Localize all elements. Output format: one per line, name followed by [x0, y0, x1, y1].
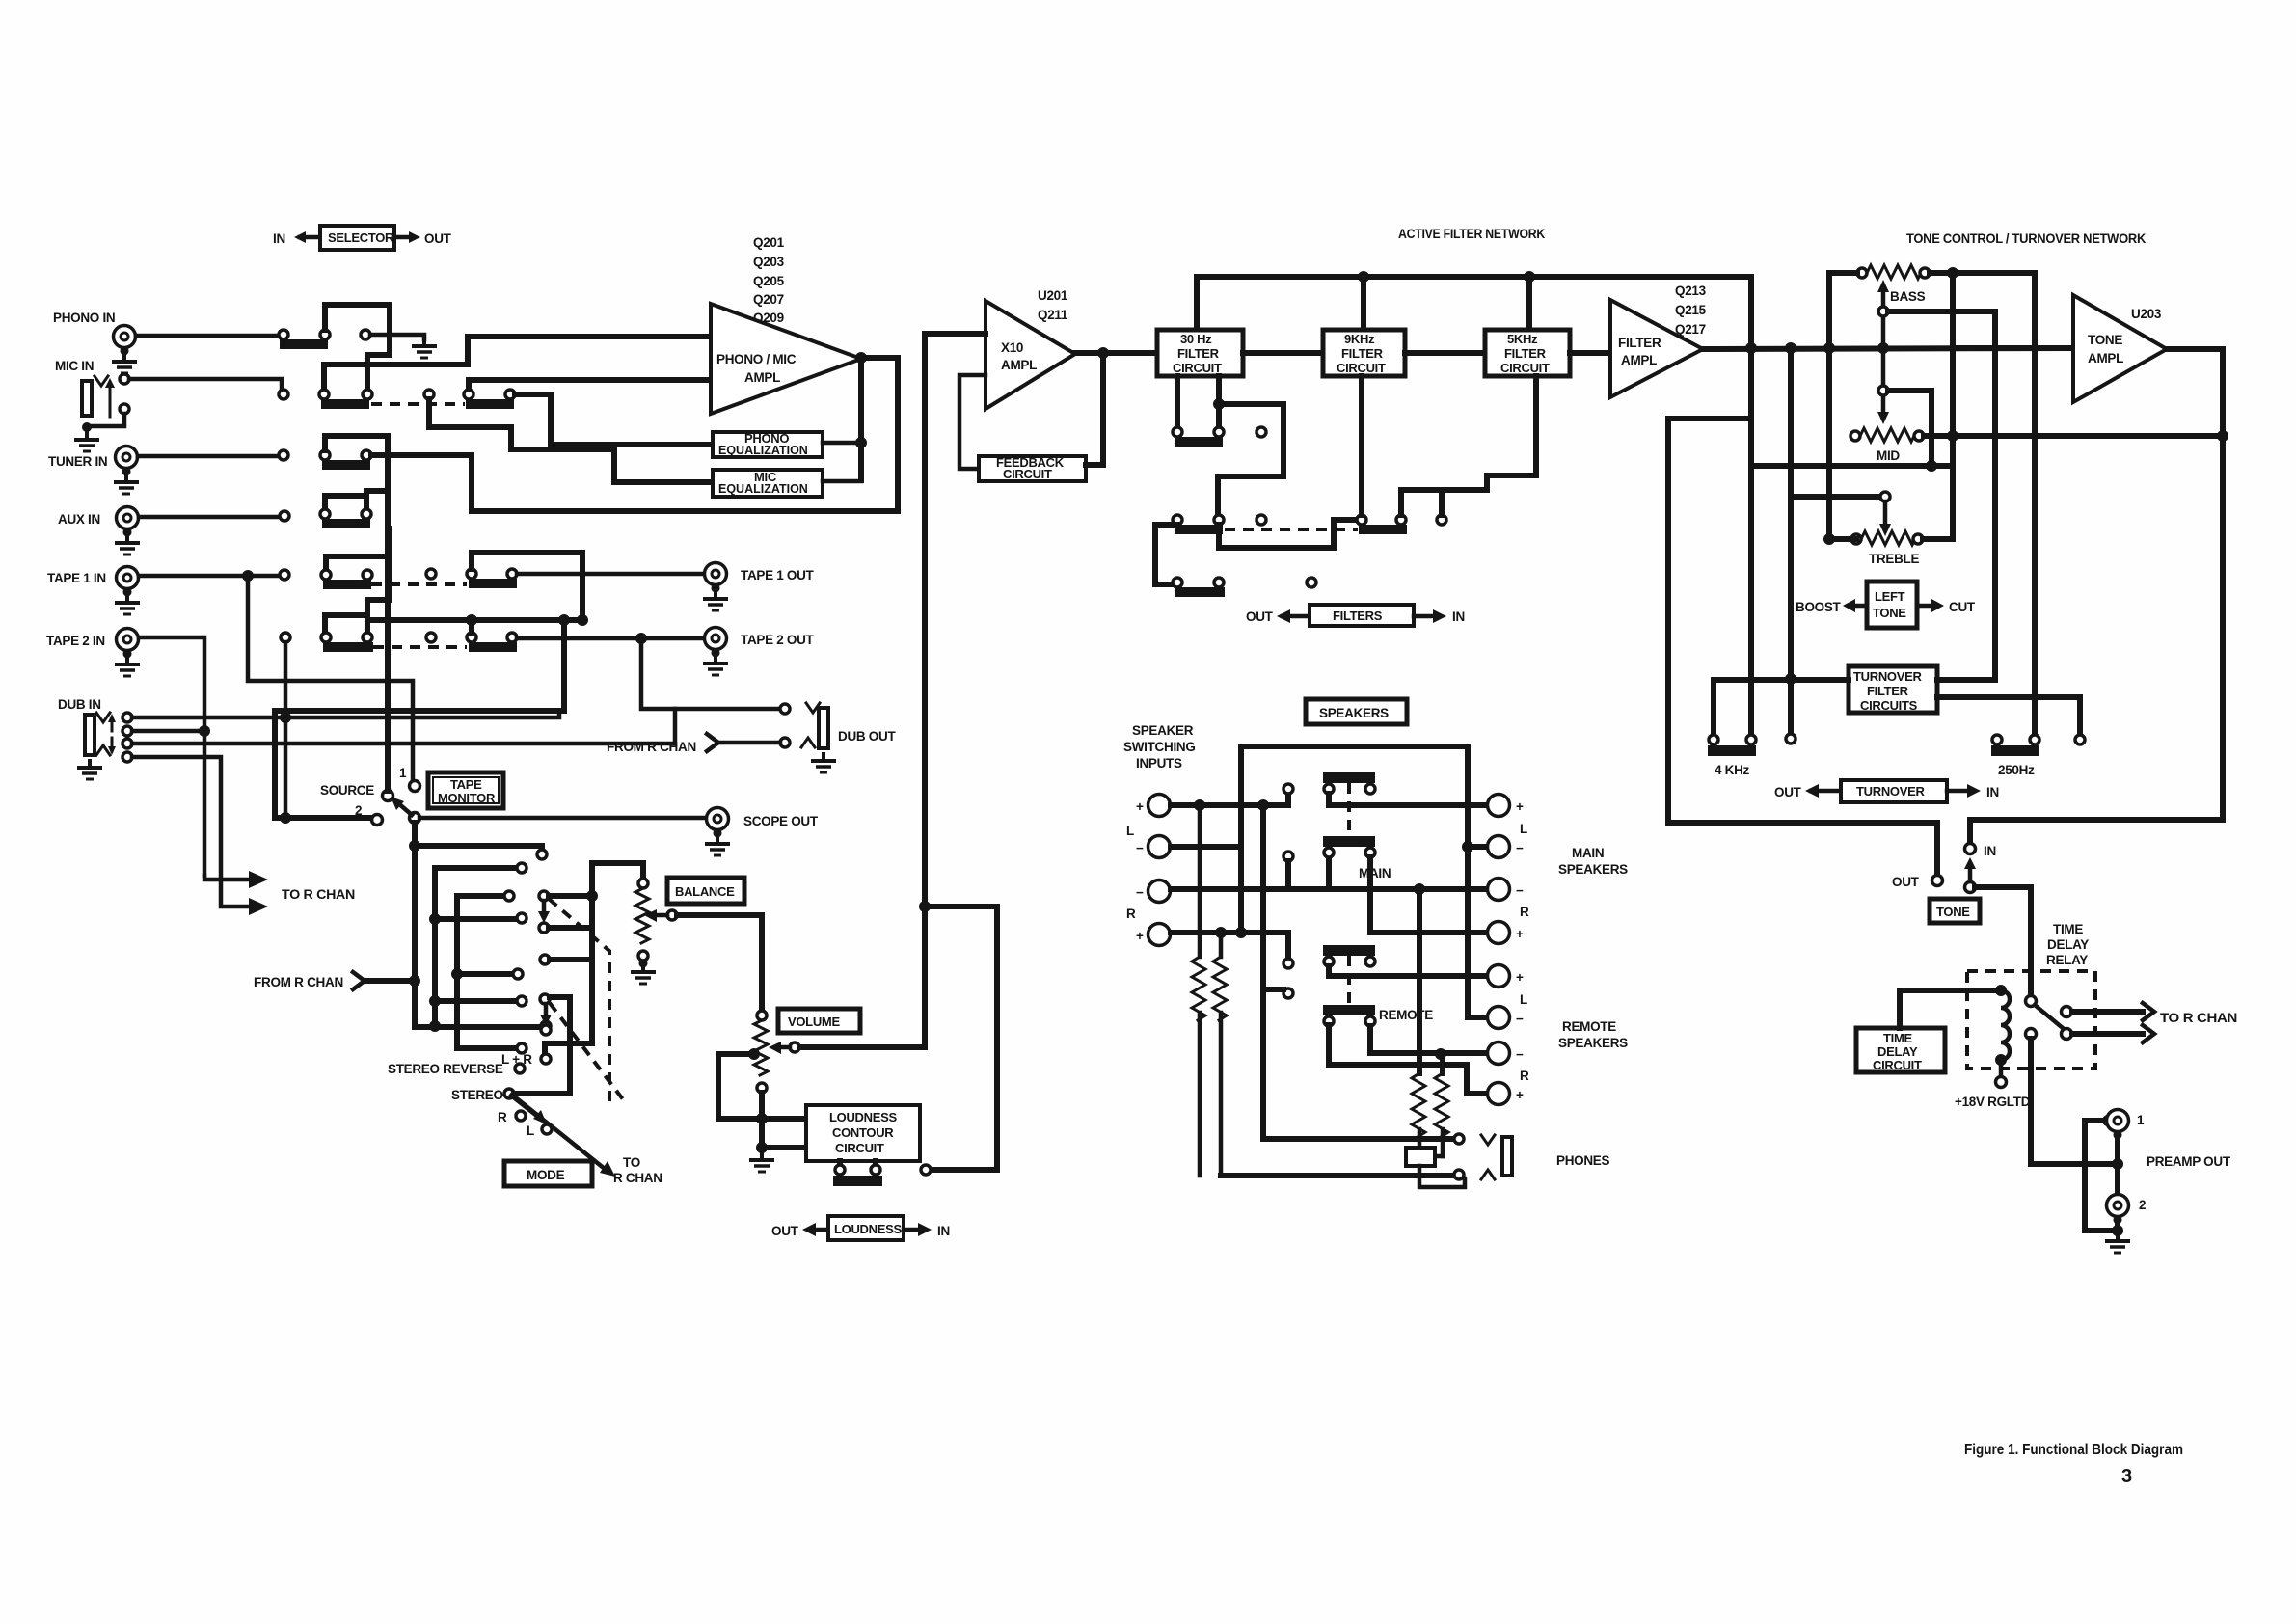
- op-amp TONE AMPL: [2073, 295, 2167, 402]
- wire input L+ row: [1171, 802, 1288, 808]
- ground of SCOPE OUT jack: [705, 835, 730, 855]
- ground of PHONO IN jack: [112, 353, 137, 373]
- svg-text:−: −: [1516, 1047, 1524, 1062]
- wire selector staircase aux upper link: [325, 496, 366, 509]
- node mode contact a: [539, 891, 549, 901]
- wire volume wiper riser to X10 input: [925, 334, 986, 1047]
- svg-text:CONTOUR: CONTOUR: [832, 1125, 894, 1140]
- svg-text:CIRCUIT: CIRCUIT: [1873, 1058, 1922, 1072]
- wire bass wiper lower tap: [1877, 353, 1889, 424]
- junction turnover left node: [1785, 673, 1796, 685]
- junction amp output feedback tap: [855, 352, 867, 364]
- jack MIC IN (phone jack): [82, 376, 115, 417]
- node 30Hz switch upper right contact: [1214, 427, 1224, 437]
- node loudness out contact left: [835, 1165, 845, 1175]
- node phono ground contact: [361, 330, 370, 339]
- bracket to R chan upper (relay): [2143, 1003, 2154, 1020]
- svg-text:EQUALIZATION: EQUALIZATION: [718, 482, 808, 496]
- wire volume low tap loop: [718, 1054, 762, 1119]
- terminal speaker input R-: [1136, 880, 1171, 903]
- svg-text:−: −: [1136, 841, 1144, 855]
- wire bass wiper arm: [1877, 280, 1889, 348]
- svg-text:R: R: [1126, 907, 1136, 921]
- svg-text:PHONO IN: PHONO IN: [53, 311, 115, 325]
- wire phono eq to feedback node: [823, 441, 858, 446]
- node tape monitor source contact: [383, 791, 393, 801]
- node main L switch left contact: [1324, 784, 1334, 794]
- junction matrix row4: [429, 913, 441, 925]
- jack TAPE 1 IN: [117, 567, 139, 597]
- switch remote R: [1323, 1005, 1375, 1026]
- junction mid branch: [1926, 460, 1937, 472]
- jack DUB OUT (phone jack): [801, 703, 828, 748]
- node +18V contact: [1996, 1077, 2007, 1088]
- wire turnover left stub to spare contact: [1788, 679, 1794, 734]
- switch mode lower wiper arrow: [511, 1096, 547, 1124]
- svg-text:Q203: Q203: [753, 255, 785, 269]
- wire 30Hz box right stub: [1216, 376, 1222, 427]
- svg-text:−: −: [1516, 841, 1524, 855]
- title: selector switch legend: [273, 226, 452, 250]
- svg-text:FILTER: FILTER: [1504, 346, 1547, 361]
- junction matrix row7: [429, 995, 441, 1007]
- node mic jack lower contact: [120, 404, 129, 414]
- svg-text:Figure 1. Functional Block Di: Figure 1. Functional Block Diagram: [1964, 1442, 2183, 1458]
- switch mode wiper arrow a: [538, 901, 550, 923]
- label OUT LOUDNESS IN legend: [771, 1216, 950, 1240]
- wire lower switch left U: [1155, 525, 1177, 584]
- ground of AUX IN jack: [115, 534, 140, 555]
- terminal main speaker R+: [1488, 922, 1525, 944]
- node tape1 out switch right contact: [507, 569, 517, 579]
- node tuner wafer left contact: [320, 450, 330, 460]
- transistor list Q201 Q203 Q205 Q207 Q209: [753, 235, 785, 325]
- switch S1 wafer position AUX (bar): [322, 519, 370, 528]
- svg-text:AMPL: AMPL: [744, 370, 780, 385]
- node dub in contact 4: [122, 752, 132, 762]
- mechanical dashed link filters: [1225, 528, 1358, 531]
- switch S1 wafer position TUNER (bar): [322, 460, 370, 470]
- potentiometer VOLUME: [754, 1011, 768, 1093]
- wire mic eq to feedback node: [823, 479, 861, 484]
- junction main L-: [1462, 841, 1473, 853]
- svg-text:LOUDNESS: LOUDNESS: [834, 1222, 902, 1236]
- box SPEAKERS: [1306, 699, 1407, 724]
- wire bus drop to 5khz box: [1526, 277, 1532, 330]
- svg-text:R: R: [498, 1110, 507, 1124]
- node turnover spare contact: [1786, 734, 1796, 744]
- svg-text:REMOTE: REMOTE: [1379, 1008, 1433, 1022]
- switch S1 wafer position MIC (bar): [321, 399, 369, 409]
- switch volume wiper: [769, 1042, 799, 1054]
- node matrix row2 contact: [517, 863, 527, 873]
- junction L+ resistor tap: [1194, 799, 1205, 811]
- potentiometer BASS: [1857, 265, 1930, 304]
- switch filters bottom (bar): [1175, 587, 1225, 597]
- svg-text:CIRCUITS: CIRCUITS: [1860, 698, 1918, 713]
- junction monitor bus to tape2 switch: [466, 614, 477, 626]
- wire from R chan to dub out: [721, 741, 780, 745]
- wire mode to R chan arrow: [513, 1096, 615, 1177]
- box TAPE MONITOR: [428, 772, 503, 808]
- node aux selector input contact: [280, 511, 289, 521]
- svg-text:IN: IN: [937, 1224, 950, 1238]
- box LEFT TONE: [1867, 582, 1917, 628]
- wire 30Hz box left stub to switch: [1175, 376, 1180, 427]
- svg-text:INPUTS: INPUTS: [1136, 756, 1182, 771]
- junction filter output to bass wiper: [1877, 342, 1889, 354]
- wire R+ stub to main R switch lower: [1285, 933, 1291, 959]
- label SPEAKER SWITCHING INPUTS: [1123, 723, 1196, 771]
- junction bus over 5khz: [1524, 271, 1535, 283]
- bracket to R chan lower (relay): [2143, 1025, 2154, 1042]
- node tape monitor contact 2: [372, 815, 383, 826]
- jack PREAMP OUT 1: [2107, 1110, 2129, 1140]
- svg-text:1: 1: [399, 766, 407, 780]
- svg-text:BASS: BASS: [1890, 289, 1926, 304]
- svg-text:Q215: Q215: [1675, 303, 1707, 317]
- wire tape2 contact down to source contact 2: [284, 642, 288, 818]
- svg-text:TONE: TONE: [2088, 333, 2122, 347]
- wire main R throw stub: [1285, 861, 1291, 889]
- wire turnover box right upper: [1937, 677, 1995, 683]
- dashed mode gang link b: [550, 1003, 623, 1099]
- node 30Hz lower switch left contact: [1173, 515, 1182, 525]
- label MAIN SPEAKERS: [1558, 846, 1628, 877]
- wire mid wiper branch: [1888, 391, 1931, 466]
- resistor speaker load R: [1213, 933, 1227, 1176]
- node stereo contact: [504, 1089, 514, 1098]
- ground of TAPE 2 IN jack: [115, 656, 140, 676]
- wire mic jack to selector: [129, 379, 282, 389]
- terminal main speaker L+: [1488, 795, 1525, 817]
- svg-text:SPEAKERS: SPEAKERS: [1558, 862, 1628, 877]
- svg-text:MONITOR: MONITOR: [438, 791, 496, 805]
- op-amp PHONO/MIC AMPL: [711, 304, 861, 414]
- node dub out ring contact: [780, 738, 790, 747]
- wire treble wiper chain: [1791, 492, 1891, 536]
- junction relay coil top: [1995, 985, 2007, 996]
- switch relay contact lower: [2026, 1029, 2072, 1040]
- dashed gang remote switches: [1347, 956, 1351, 1007]
- wire main L- to speaker: [1468, 844, 1488, 850]
- svg-text:TUNER IN: TUNER IN: [48, 454, 107, 469]
- svg-text:AUX IN: AUX IN: [58, 512, 100, 527]
- junction dub1 with tape2 drop: [280, 712, 291, 723]
- node mic right switch right contact: [505, 390, 515, 399]
- junction treble left: [1823, 533, 1835, 545]
- svg-text:RELAY: RELAY: [2046, 953, 2088, 967]
- node 250Hz spare contact: [2075, 735, 2085, 744]
- wire phones tip line: [1263, 1136, 1452, 1142]
- jack TUNER IN: [116, 447, 138, 476]
- jack PHONES (phone jack): [1481, 1135, 1512, 1179]
- node matrix row9 contact: [517, 1043, 527, 1053]
- switch tape monitor wiper: [391, 797, 420, 824]
- junction 30Hz stub: [1213, 398, 1225, 410]
- box VOLUME: [778, 1009, 860, 1033]
- ground of volume pot: [749, 1151, 774, 1172]
- wire preamp jack bracket: [2085, 1121, 2116, 1231]
- dashed gang main switches: [1347, 783, 1351, 836]
- svg-text:Q213: Q213: [1675, 284, 1707, 298]
- wire turnover box left to 4KHz switch: [1714, 680, 1849, 735]
- svg-text:R: R: [1520, 905, 1529, 919]
- switch balance wiper: [644, 909, 677, 922]
- svg-text:Q211: Q211: [1038, 308, 1068, 322]
- svg-text:MIC IN: MIC IN: [55, 359, 94, 373]
- wire 9KHz to 5KHz: [1405, 350, 1485, 356]
- op-amp FILTER AMPL: [1610, 300, 1703, 397]
- jack PHONO IN: [114, 326, 136, 356]
- wire dub in 1 to source bus: [132, 711, 559, 717]
- node matrix row6 contact: [513, 969, 523, 979]
- terminal remote speaker L-: [1488, 1007, 1525, 1029]
- svg-text:TURNOVER: TURNOVER: [1853, 669, 1922, 684]
- wire X10 feedback loop input: [959, 375, 986, 469]
- svg-text:CIRCUIT: CIRCUIT: [835, 1141, 884, 1155]
- wire volume bottom to loudness box: [762, 1093, 806, 1119]
- svg-text:TO: TO: [623, 1155, 640, 1170]
- node 9KHz spare contact: [1437, 515, 1446, 525]
- wire main L out to speaker: [1329, 794, 1488, 805]
- node 9KHz switch left contact: [1357, 515, 1366, 525]
- svg-text:SPEAKERS: SPEAKERS: [1558, 1036, 1628, 1050]
- switch mic-eq select (bar): [466, 399, 514, 409]
- svg-text:5KHz: 5KHz: [1507, 332, 1538, 346]
- svg-text:SELECTOR: SELECTOR: [328, 230, 394, 245]
- wire feedback vertical to equalizers: [858, 358, 864, 480]
- box 5KHz FILTER CIRCUIT: [1485, 330, 1570, 376]
- wire 5KHz to filter ampl: [1570, 350, 1610, 356]
- svg-text:AMPL: AMPL: [1621, 353, 1657, 367]
- svg-text:30 Hz: 30 Hz: [1180, 332, 1212, 346]
- svg-text:AMPL: AMPL: [1001, 358, 1037, 372]
- node mode contact d: [540, 994, 550, 1004]
- node mic wafer right contact: [363, 390, 372, 399]
- svg-text:TAPE 2 IN: TAPE 2 IN: [46, 634, 105, 648]
- junction filter output to bass left: [1823, 342, 1835, 354]
- wire dub in 4 down to R channel: [132, 757, 253, 907]
- svg-text:OUT: OUT: [424, 231, 452, 246]
- svg-text:Q205: Q205: [753, 274, 785, 288]
- node tape2 out switch right contact: [507, 633, 517, 642]
- wire selector staircase tuner link: [325, 436, 388, 496]
- terminal speaker input L-: [1136, 836, 1171, 858]
- switch 30Hz lower (bar): [1175, 525, 1223, 534]
- wire balance wiper to volume pot: [677, 915, 762, 1011]
- wire bass left to mid row: [1829, 273, 1857, 432]
- terminal main speaker L-: [1488, 836, 1525, 858]
- wire aux jack to selector: [139, 515, 280, 520]
- wire selector tape1 upper U: [326, 556, 390, 570]
- wire tape monitor source bus: [367, 617, 582, 623]
- svg-text:IN: IN: [1452, 609, 1465, 624]
- wire phones ring line: [1221, 1173, 1452, 1178]
- wire selector staircase phono to mic: [325, 305, 390, 390]
- node loudness bypass contact: [921, 1165, 931, 1175]
- ground of TAPE 1 OUT jack: [703, 590, 728, 610]
- node 30Hz spare contact: [1256, 427, 1266, 437]
- wire matrix row6: [457, 971, 513, 977]
- box MIC EQUALIZATION: [713, 470, 823, 497]
- box MODE: [504, 1161, 592, 1186]
- node mic jack sleeve junction: [82, 422, 92, 432]
- svg-text:DELAY: DELAY: [1877, 1044, 1918, 1059]
- switch remote L: [1323, 945, 1375, 966]
- node 250Hz right contact: [2030, 735, 2039, 744]
- node main L throw contact: [1283, 784, 1293, 794]
- box TURNOVER FILTER CIRCUITS: [1849, 666, 1937, 713]
- node tape1 wafer right contact: [363, 570, 372, 580]
- wire remote R throw stub2: [1263, 987, 1283, 992]
- junction matrix row6: [451, 968, 463, 980]
- svg-text:DUB OUT: DUB OUT: [838, 729, 896, 744]
- svg-text:R CHAN: R CHAN: [613, 1171, 662, 1185]
- svg-text:MID: MID: [1877, 448, 1900, 463]
- node filters bottom spare: [1307, 578, 1316, 587]
- svg-text:SCOPE OUT: SCOPE OUT: [743, 814, 819, 828]
- node dub in contact 2: [122, 726, 132, 736]
- svg-text:IN: IN: [1986, 785, 1999, 799]
- wire contact2 feed: [275, 816, 371, 821]
- svg-text:L: L: [527, 1123, 534, 1138]
- wire mic switch to phono equalization: [515, 394, 709, 445]
- wire loudness bypass loop: [925, 907, 997, 1170]
- node 250Hz left contact: [1992, 735, 2002, 744]
- svg-text:R: R: [1520, 1069, 1529, 1083]
- svg-text:U203: U203: [2131, 307, 2162, 321]
- svg-text:DELAY: DELAY: [2047, 937, 2089, 952]
- svg-text:TO R CHAN: TO R CHAN: [282, 887, 355, 902]
- potentiometer BALANCE: [635, 879, 649, 961]
- ground of PREAMP OUT jacks: [2105, 1232, 2130, 1253]
- node 30Hz switch upper left contact: [1173, 427, 1182, 437]
- switch loudness (bar): [833, 1176, 882, 1186]
- junction phones feed A: [1414, 883, 1425, 895]
- wire coil bottom stub: [1999, 1060, 2004, 1076]
- mechanical dashed link mic switch: [371, 402, 465, 406]
- wire main R switch drop: [1326, 857, 1332, 889]
- wire bass tap down through mid to treble: [1950, 273, 1956, 466]
- junction X10 output: [1097, 347, 1109, 359]
- wire main R out: [1370, 857, 1488, 933]
- svg-text:STEREO: STEREO: [451, 1088, 503, 1102]
- switch tape2 out (bar): [469, 642, 517, 652]
- node 4KHz left contact: [1709, 735, 1718, 744]
- wire phono jack to selector contact: [136, 334, 278, 338]
- svg-text:TONE: TONE: [1873, 606, 1906, 620]
- ground of TAPE 2 OUT jack: [703, 655, 728, 675]
- svg-text:FILTER: FILTER: [1867, 684, 1909, 698]
- wire selector tape2 upper U: [325, 615, 367, 633]
- svg-text:FROM R CHAN: FROM R CHAN: [607, 740, 696, 754]
- switch S1 wafer position PHONO (closed bar): [280, 339, 328, 349]
- wire tape1 jack to selector: [139, 574, 280, 579]
- node stereo reverse contact: [515, 1064, 525, 1073]
- junction preamp ground: [2112, 1225, 2123, 1236]
- junction volume pot low tap: [748, 1048, 760, 1060]
- node dub in contact 1: [122, 713, 132, 722]
- node remote L throw contact: [1283, 959, 1293, 968]
- wire bus drop to 9khz box: [1361, 277, 1366, 330]
- svg-text:+: +: [1516, 1088, 1524, 1102]
- svg-text:SWITCHING: SWITCHING: [1123, 740, 1196, 754]
- ground of MIC IN jack: [74, 431, 99, 451]
- wire selector staircase aux to tape1: [367, 528, 390, 615]
- wire filter feedback top bus: [1197, 277, 1751, 347]
- wire tape monitor wiper to scope out: [419, 816, 705, 821]
- node bottom switch left contact: [1173, 578, 1182, 587]
- svg-text:VOLUME: VOLUME: [788, 1015, 840, 1029]
- junction relay coil bottom: [1995, 1054, 2007, 1066]
- switch tape1 out (bar): [469, 579, 517, 588]
- resistor phones feed B: [1434, 1054, 1448, 1156]
- svg-text:9KHz: 9KHz: [1344, 332, 1375, 346]
- node tape2 wafer right contact: [363, 633, 372, 642]
- junction bus over 9khz: [1358, 271, 1369, 283]
- node phono wafer contact: [320, 330, 330, 339]
- wire 30Hz to 9KHz: [1243, 350, 1323, 356]
- wire remote L out: [1329, 966, 1488, 976]
- switch main R (bar): [1323, 836, 1375, 847]
- junction phono eq out: [855, 437, 867, 448]
- ground of TUNER IN jack: [114, 474, 139, 494]
- wire turnover box right lower to 250Hz: [1937, 697, 2080, 735]
- svg-text:PHONES: PHONES: [1556, 1153, 1610, 1168]
- wire mid lower branch: [1751, 466, 1953, 534]
- wire volume ground leg: [762, 1119, 806, 1148]
- label REMOTE SPEAKERS: [1558, 1019, 1628, 1050]
- svg-text:MAIN: MAIN: [1359, 866, 1391, 880]
- node main R switch right contact: [1365, 848, 1375, 857]
- switch 9KHz filter (bar): [1359, 525, 1407, 534]
- ground at selector: [412, 338, 437, 358]
- node aux wafer right contact: [362, 509, 371, 519]
- wire mic right switch to amp input 2: [469, 380, 707, 390]
- junction matrix row1: [409, 840, 420, 852]
- jack AUX IN: [117, 507, 139, 537]
- box 9KHz FILTER CIRCUIT: [1323, 330, 1405, 376]
- transistor list Q213 Q215 Q217: [1675, 284, 1707, 337]
- svg-text:TIME: TIME: [1883, 1031, 1912, 1045]
- ground of DUB IN jack: [77, 759, 102, 779]
- junction dub2 tape2 line: [199, 725, 210, 737]
- wire remote R throw stub: [1260, 805, 1266, 1139]
- switch tone wiper: [1964, 857, 1976, 893]
- svg-text:CIRCUIT: CIRCUIT: [1337, 361, 1386, 375]
- wire monitor bus to tape2 switch contact: [469, 620, 474, 633]
- svg-text:+: +: [1516, 927, 1524, 941]
- wire mode contact c link: [550, 957, 592, 962]
- jack DUB IN (stereo phone jack): [85, 713, 116, 755]
- wire tape2 jack down to dub area: [139, 637, 204, 876]
- wire bass right to verticals: [1930, 273, 2035, 735]
- svg-text:Q207: Q207: [753, 292, 784, 307]
- terminal speaker input R+: [1136, 924, 1171, 946]
- svg-text:+18V RGLTD: +18V RGLTD: [1955, 1095, 2031, 1109]
- svg-text:IN: IN: [1984, 844, 1996, 858]
- wire bass wiper tap to turnover right: [1888, 311, 1995, 679]
- terminal remote speaker L+: [1488, 965, 1525, 988]
- label CUT with arrow: [1919, 599, 1976, 614]
- wire matrix row8: [415, 1024, 541, 1030]
- node main L switch right contact: [1365, 784, 1375, 794]
- svg-text:TREBLE: TREBLE: [1869, 552, 1919, 566]
- wire mic jack sleeve to ground: [87, 414, 124, 426]
- mechanical dashed link tape2 switch: [373, 645, 467, 649]
- box 30 Hz FILTER CIRCUIT: [1157, 330, 1243, 376]
